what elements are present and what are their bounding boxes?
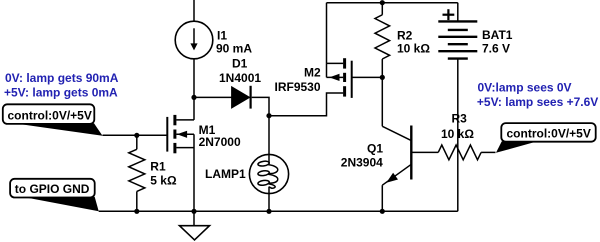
svg-text:2N7000: 2N7000: [199, 135, 241, 149]
svg-text:5 kΩ: 5 kΩ: [150, 174, 177, 188]
label D1: [232, 57, 248, 71]
annotation blue line 2: [4, 85, 118, 99]
wire battery + lead: [457, 3, 459, 22]
wire R1 bottom lead: [136, 191, 138, 211]
svg-text:M2: M2: [304, 66, 321, 80]
svg-text:0V:lamp sees 0V: 0V:lamp sees 0V: [478, 80, 572, 94]
transistor Q1 (NPN 2N3904): [382, 126, 438, 186]
wire R2 top lead: [381, 3, 383, 15]
svg-text:Q1: Q1: [367, 141, 383, 155]
wire R2 bottom lead: [381, 59, 383, 77]
label R2: [397, 28, 413, 42]
junction R1 top/M1 gate: [134, 133, 139, 138]
wire I1 bottom to node A: [193, 59, 195, 98]
flag control right (node control:0V/+5V): [496, 123, 596, 153]
value label 10 kOhm R3: [441, 127, 474, 141]
resistor R1: [129, 149, 145, 191]
svg-text:control:0V/+5V: control:0V/+5V: [507, 127, 591, 141]
current source I1: [175, 21, 213, 59]
wire M1 source/body to ground rail: [193, 134, 195, 211]
label M2: [304, 66, 321, 80]
wire node A to D1 anode: [194, 96, 232, 98]
value label IRF9530: [275, 80, 321, 94]
label LAMP1: [205, 167, 246, 181]
svg-text:R3: R3: [452, 112, 468, 126]
value label 2N3904: [341, 155, 383, 169]
label R3: [452, 112, 468, 126]
svg-text:2N3904: 2N3904: [341, 155, 383, 169]
svg-text:10 kΩ: 10 kΩ: [397, 42, 430, 56]
flag to GPIO GND: [10, 179, 99, 212]
wire node A down to M1 drain: [193, 97, 195, 120]
svg-text:IRF9530: IRF9530: [275, 80, 321, 94]
wire LAMP1 bottom to ground rail: [268, 187, 270, 212]
svg-text:10 kΩ: 10 kΩ: [441, 127, 474, 141]
wire D1 cathode to lamp column: [252, 97, 269, 115]
value label 90 mA: [216, 42, 252, 56]
transistor M1 (NMOS 2N7000): [167, 115, 194, 153]
label M1: [199, 123, 216, 137]
wire battery - lead down to ground rail: [457, 59, 459, 212]
svg-text:BAT1: BAT1: [482, 28, 513, 42]
junction Q1 emitter/ground-rail: [380, 209, 385, 214]
junction node A (I1/D1/M1 drain): [191, 95, 196, 100]
svg-text:0V: lamp gets 90mA: 0V: lamp gets 90mA: [5, 71, 119, 85]
transistor M2 (PMOS IRF9530): [327, 58, 352, 98]
resistor R2: [375, 15, 390, 59]
junction lamp/ground-rail: [266, 209, 271, 214]
label R1: [150, 159, 166, 173]
annotation blue line 1: [5, 71, 119, 85]
ground: [180, 211, 210, 240]
svg-text:+5V: lamp gets 0mA: +5V: lamp gets 0mA: [4, 85, 118, 99]
annotation blue line 4: [477, 95, 598, 109]
label Q1: [367, 141, 383, 155]
wire top feed into I1: [193, 0, 195, 21]
resistor R3: [438, 145, 481, 160]
svg-text:+5V: lamp sees +7.6V: +5V: lamp sees +7.6V: [477, 95, 598, 109]
wire R3 right lead to control flag: [481, 151, 495, 153]
svg-text:R1: R1: [150, 159, 166, 173]
value label 10 kOhm R2: [397, 42, 430, 56]
junction node B (D1/LAMP1/M2 drain): [266, 113, 271, 118]
battery BAT1: [438, 21, 477, 58]
flag control left (node control:0V/+5V): [3, 104, 103, 136]
wire M1 gate lead from control flag: [103, 134, 168, 136]
svg-text:I1: I1: [217, 28, 227, 42]
wire M2 source up to +V rail: [326, 3, 328, 64]
svg-text:to GPIO GND: to GPIO GND: [15, 182, 90, 196]
svg-text:1N4001: 1N4001: [219, 71, 261, 85]
svg-text:R2: R2: [397, 28, 413, 42]
svg-text:90 mA: 90 mA: [216, 42, 252, 56]
svg-text:control:0V/+5V: control:0V/+5V: [8, 108, 92, 122]
wire node B to M2 drain: [269, 93, 343, 116]
wire ground rail: [99, 210, 458, 212]
junction M1 source/ground-rail: [191, 209, 196, 214]
junction node C (R2/M2 gate/Q1 collector): [380, 75, 385, 80]
annotation blue line 3: [478, 80, 572, 94]
value label 2N7000: [199, 135, 241, 149]
wire Q1 emitter to ground rail: [381, 185, 383, 211]
wire +V top rail: [327, 2, 458, 4]
value label 1N4001: [219, 71, 261, 85]
svg-text:D1: D1: [232, 57, 248, 71]
label BAT1: [482, 28, 513, 42]
junction R1 bottom/ground-rail: [134, 209, 139, 214]
junction rail/R2 top: [380, 0, 385, 5]
wire M2 gate lead: [352, 76, 383, 78]
value label 7.6 V: [482, 41, 510, 55]
label I1: [217, 28, 227, 42]
wire node C to Q1 collector: [381, 77, 383, 126]
battery plus sign: [443, 9, 455, 20]
value label 5 kOhm: [150, 174, 177, 188]
wire node B down to LAMP1: [268, 116, 270, 164]
lamp LAMP1: [249, 154, 288, 193]
wire R1 top lead: [136, 135, 138, 149]
diode D1: [232, 86, 251, 109]
svg-text:7.6 V: 7.6 V: [482, 41, 510, 55]
svg-text:LAMP1: LAMP1: [205, 167, 246, 181]
